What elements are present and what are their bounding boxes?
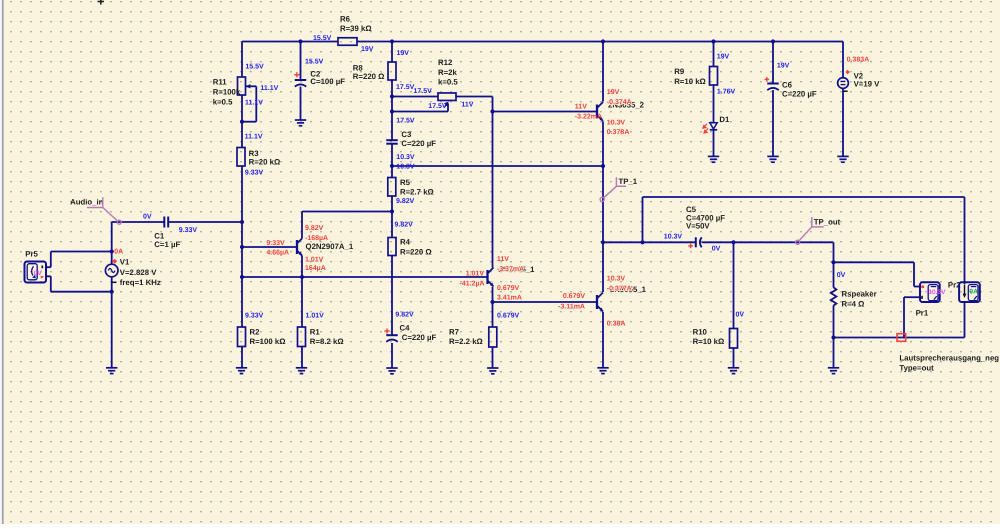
wire R7 bottom (492, 347, 494, 368)
svg-text:11.1V: 11.1V (245, 100, 263, 107)
resistor R1 body (298, 327, 306, 347)
resistor R8 body (388, 62, 396, 80)
wire left column top (241, 42, 243, 78)
junction Q2/rail (601, 39, 605, 43)
wire R12 left lead (392, 96, 438, 98)
capacitor C6 plates (767, 83, 779, 85)
svg-text:R6: R6 (340, 15, 351, 24)
svg-text:19V: 19V (361, 46, 374, 53)
junction Q2907 collector node (300, 275, 304, 279)
svg-text:11.1V: 11.1V (260, 85, 278, 92)
transistor 2N3055_1 output (597, 293, 603, 312)
svg-text:11V: 11V (575, 104, 587, 111)
svg-text:R2: R2 (250, 327, 261, 336)
svg-text:0V: 0V (143, 213, 152, 220)
svg-text:11V: 11V (461, 102, 473, 109)
wire Pr5 bottom wire (51, 291, 112, 293)
ground at x=603 (597, 367, 608, 369)
svg-text:0A: 0A (114, 248, 123, 255)
test point TP_out (812, 217, 824, 227)
svg-text:R7: R7 (449, 327, 459, 336)
svg-text:C=100 µF: C=100 µF (310, 77, 345, 86)
svg-text:R=39 kΩ: R=39 kΩ (340, 24, 372, 33)
wire input top (112, 221, 165, 223)
wire C1 to node (168, 221, 242, 223)
wire speaker node to Pr1 (834, 261, 915, 263)
wire Q2 emitter down (602, 122, 604, 167)
svg-text:9.33V: 9.33V (245, 170, 264, 177)
junction V1 plus node (110, 249, 114, 253)
svg-text:R5: R5 (400, 178, 411, 187)
svg-text:R=100 kΩ: R=100 kΩ (250, 337, 286, 346)
V1 plus marker (112, 259, 117, 264)
wire Q3 collector up (602, 242, 604, 292)
svg-text:9.33V: 9.33V (245, 313, 264, 320)
wire output wire left (603, 241, 695, 243)
svg-text:19V: 19V (397, 50, 410, 57)
svg-text:17.5V: 17.5V (396, 118, 415, 125)
resistor R6 body (338, 38, 357, 46)
wire R7 top (492, 302, 494, 327)
wire feedback down to Pr2 (964, 197, 966, 284)
wire R10 top (733, 242, 735, 328)
polarity + marker (294, 74, 299, 76)
svg-text:11.1V: 11.1V (245, 134, 263, 141)
ground at x=492.8 (487, 367, 498, 369)
svg-text:0.383A: 0.383A (847, 57, 870, 64)
wire C6 top (772, 42, 774, 84)
ground at x=833.5 (828, 367, 839, 369)
svg-text:164µA: 164µA (305, 265, 326, 272)
svg-text:R9: R9 (674, 67, 685, 76)
probe Pr5 (25, 262, 47, 283)
wire 19V rail left of R6 (242, 41, 338, 43)
wire R1 top (301, 277, 303, 327)
ground at x=713.5 (708, 155, 719, 157)
svg-text:R=20 kΩ: R=20 kΩ (249, 158, 281, 167)
junction base Q2 node (490, 109, 494, 113)
svg-text:0.378A: 0.378A (607, 129, 630, 136)
wire input down (111, 222, 113, 264)
svg-text:C=220 µF: C=220 µF (402, 333, 437, 342)
wire Pr5 top wire (51, 251, 112, 253)
wire emitter to base Q3 (493, 301, 598, 303)
wire Q2 collector (602, 42, 604, 102)
resistor Rspeaker zigzag (831, 287, 837, 305)
wire D1 to ground (713, 130, 715, 156)
Audio_in marker (87, 197, 103, 207)
ground at x=773 (767, 155, 778, 157)
svg-text:1.76V: 1.76V (717, 88, 736, 95)
junction C2/rail (298, 39, 302, 43)
svg-text:10.3V: 10.3V (664, 233, 683, 240)
svg-text:D1: D1 (719, 115, 730, 124)
svg-text:-41.2µA: -41.2µA (460, 281, 485, 288)
transistor 2N3055_1 driver (488, 268, 494, 287)
svg-text:0V: 0V (736, 312, 745, 319)
svg-text:R=10 kΩ: R=10 kΩ (693, 337, 725, 346)
svg-text:-3.22mA: -3.22mA (575, 114, 602, 121)
wire 10.3V wire (392, 165, 603, 167)
svg-text:0.38A: 0.38A (607, 321, 626, 328)
junction C6/rail (771, 39, 775, 43)
transistor 2N3055_2 symbol (597, 102, 603, 121)
resistor R5 body (388, 178, 396, 197)
svg-text:C4: C4 (400, 323, 411, 332)
svg-text:9.82V: 9.82V (396, 198, 415, 205)
svg-text:15.5V: 15.5V (245, 63, 264, 70)
junction R9/rail (711, 39, 715, 43)
svg-text:Pr1: Pr1 (916, 308, 929, 317)
wire R8 top (391, 42, 393, 63)
svg-text:9.33V: 9.33V (179, 227, 198, 234)
ground at x=733.5 (728, 367, 739, 369)
wire R11 wiper return (242, 121, 256, 123)
wire left column R2-gnd (241, 347, 243, 368)
capacitor C1 plates (163, 217, 165, 228)
resistor R3 body (237, 148, 245, 167)
svg-text:freq=1 KHz: freq=1 KHz (120, 278, 161, 287)
wire R11 wiper down (255, 86, 257, 121)
wire R12 right lead (456, 96, 493, 98)
junction feedback tap (640, 240, 644, 244)
wire C2 top (300, 42, 302, 81)
svg-text:0.679V: 0.679V (497, 313, 520, 320)
junction R12 left tap (390, 94, 394, 98)
wire bottom return (834, 337, 965, 339)
svg-text:10.3V: 10.3V (396, 154, 415, 161)
wire R12 right down (492, 97, 494, 112)
svg-text:0V: 0V (712, 246, 721, 253)
svg-text:R4: R4 (400, 238, 411, 247)
svg-text:17.5V: 17.5V (428, 103, 447, 110)
source V2 (838, 78, 849, 89)
wire feedback up (642, 197, 644, 242)
R12 wiper arrow (445, 103, 448, 107)
svg-text:R=100k: R=100k (213, 87, 241, 96)
wire Pr5 pin2 down (50, 276, 52, 291)
junction R12 wiper tap (390, 109, 394, 113)
ground at x=301.5 (296, 367, 307, 369)
svg-text:17.5V: 17.5V (396, 84, 415, 91)
svg-text:15.5V: 15.5V (305, 58, 324, 65)
svg-text:R=2.7 kΩ: R=2.7 kΩ (400, 188, 434, 197)
svg-text:TP_1: TP_1 (619, 177, 638, 186)
svg-text:11V: 11V (497, 256, 509, 263)
svg-text:9.82V: 9.82V (395, 312, 414, 319)
V2 plus marker (845, 70, 850, 75)
junction output node (601, 240, 605, 244)
junction R11 wiper node (240, 120, 244, 124)
svg-text:10.3V: 10.3V (607, 120, 626, 127)
svg-text:9.82V: 9.82V (305, 225, 324, 232)
svg-text:17.5V: 17.5V (414, 88, 433, 95)
junction emitter/R7 node (490, 300, 494, 304)
resistor R7 body (489, 327, 497, 347)
resistor R9 body (710, 67, 718, 86)
wire speaker lead bottom (833, 305, 835, 337)
svg-text:C=220 µF: C=220 µF (401, 139, 436, 148)
svg-text:V=50V: V=50V (686, 222, 710, 231)
svg-text:Lautsprecherausgang_neg: Lautsprecherausgang_neg (899, 353, 999, 362)
capacitor C5 plates (695, 237, 697, 247)
wire base wire Q2 (493, 111, 598, 113)
resistor R12 body (438, 93, 456, 101)
svg-text:-3.11mA: -3.11mA (558, 303, 585, 310)
V2 minus marker (844, 90, 848, 92)
svg-text:~10.3V: ~10.3V (925, 289, 947, 296)
wire R12 wiper down (447, 104, 449, 112)
probe Pr2 (959, 282, 980, 302)
svg-text:C=1 µF: C=1 µF (154, 240, 180, 249)
wire R5 to R4 (391, 196, 393, 238)
wire Pr5 pin1 up (50, 252, 52, 268)
junction 10.3V left (390, 164, 394, 168)
svg-text:9.82V: 9.82V (395, 221, 414, 228)
wire speaker top down (833, 242, 835, 262)
junction speaker node (831, 260, 835, 264)
wire R11 wiper stub (246, 85, 256, 87)
svg-text:0A: 0A (969, 288, 978, 295)
wire Pr1 lower down (903, 297, 905, 337)
svg-text:19V: 19V (607, 89, 620, 96)
wire R10 bottom (733, 348, 735, 368)
wire Q2907 emitter over (302, 211, 392, 213)
ground at x=843 (837, 155, 848, 157)
svg-text:-3.37mA: -3.37mA (497, 266, 524, 273)
wire R12 wiper return (392, 111, 448, 113)
wire audio node to base Q2907 (242, 246, 297, 248)
wire left column R3-R2 (241, 166, 243, 327)
junction R5/R4 node (390, 209, 394, 213)
test point TP_1 (616, 177, 626, 186)
resistor R2 body (238, 327, 246, 347)
junction base node (240, 245, 244, 249)
wire R1 bottom (301, 347, 303, 368)
svg-text:1.01V: 1.01V (466, 271, 485, 278)
wire TP column (602, 166, 604, 242)
svg-text:R=220 Ω: R=220 Ω (400, 248, 432, 257)
svg-text:0V: 0V (34, 270, 43, 277)
capacitor C3 plates (386, 139, 398, 141)
junction R10 tap (731, 240, 735, 244)
svg-text:R10: R10 (693, 327, 708, 336)
wire Pr5 pin2 stub (46, 275, 51, 277)
svg-text:R1: R1 (310, 327, 321, 336)
wire speaker gnd stub (833, 338, 835, 368)
resistor R10 body (730, 329, 738, 349)
ground at x=392 (386, 367, 397, 369)
svg-text:19V: 19V (717, 54, 730, 61)
wire R9 top (713, 42, 715, 67)
wire R8 to C3 (391, 80, 393, 140)
wire R9 to D1 (713, 85, 715, 123)
node Lautsprecherausgang_neg marker (897, 334, 906, 342)
svg-text:V1: V1 (120, 258, 130, 267)
wire speaker lead top (833, 262, 835, 287)
svg-text:R=4 Ω: R=4 Ω (842, 299, 865, 308)
svg-text:Q2N2907A_1: Q2N2907A_1 (306, 242, 354, 251)
wire R4 to C4 (391, 256, 393, 336)
V1 minus marker (113, 281, 117, 283)
svg-text:9.33V: 9.33V (266, 240, 285, 247)
svg-text:10.3V: 10.3V (396, 163, 415, 170)
svg-text:R=2.2 kΩ: R=2.2 kΩ (449, 337, 483, 346)
svg-text:1.01V: 1.01V (306, 313, 325, 320)
source V1 (105, 264, 118, 277)
polarity + marker (384, 330, 389, 332)
wire Q2907 emitter up (301, 212, 303, 239)
svg-text:0.679V: 0.679V (563, 293, 586, 300)
ground at x=300.5 (295, 119, 306, 121)
wire Pr1 upper down (913, 262, 915, 286)
wire C6 to ground (772, 90, 774, 156)
svg-text:-168µA: -168µA (305, 235, 328, 242)
svg-text:Rspeaker: Rspeaker (842, 290, 877, 299)
wire V2 to ground (842, 88, 844, 156)
ground at x=241.5 (236, 367, 247, 369)
svg-text:4.66µA: 4.66µA (266, 250, 289, 257)
junction R8/rail (390, 39, 394, 43)
svg-text:-0.377A: -0.377A (607, 286, 632, 293)
wire Q1 collector up (492, 112, 494, 268)
svg-text:R=220 Ω: R=220 Ω (353, 72, 385, 81)
svg-text:15.5V: 15.5V (313, 35, 332, 42)
D1 LED arrows (703, 124, 708, 133)
junction V1 minus node (110, 290, 114, 294)
polarity + marker (765, 78, 770, 80)
svg-text:C=220 µF: C=220 µF (782, 89, 817, 98)
svg-text:R=10 kΩ: R=10 kΩ (674, 77, 706, 86)
svg-text:C6: C6 (782, 81, 793, 90)
svg-text:Pr5: Pr5 (25, 249, 38, 258)
wire V1 to gnd (111, 277, 113, 368)
probe Pr1 (920, 282, 940, 302)
svg-text:19V: 19V (777, 63, 790, 70)
svg-text:0V: 0V (837, 272, 846, 279)
svg-text:R=8.2 kΩ: R=8.2 kΩ (310, 337, 344, 346)
wire Pr1 lower stub (904, 296, 920, 298)
svg-text:R=2k: R=2k (438, 68, 458, 77)
wire Q1 emitter down (492, 287, 494, 302)
wire Pr5 pin1 stub (46, 266, 51, 268)
wire C2 to ground (300, 87, 302, 120)
svg-text:10.3V: 10.3V (607, 276, 626, 283)
wire drive wire (242, 276, 488, 278)
svg-text:C3: C3 (401, 130, 412, 139)
svg-text:TP_out: TP_out (814, 218, 841, 227)
junction bottom node (831, 335, 835, 339)
wire Pr1 upper stub (914, 286, 920, 288)
wire Pr2 to bottom (964, 301, 966, 338)
capacitor C4 plates (386, 334, 398, 336)
svg-text:V=2.828 V: V=2.828 V (120, 268, 157, 277)
wire 19V rail right of R6 (357, 41, 843, 43)
svg-text:3.41mA: 3.41mA (497, 295, 522, 302)
svg-text:-0.374A: -0.374A (607, 99, 632, 106)
ground at x=111.7 (106, 367, 117, 369)
wire C3 to R5 (391, 144, 393, 178)
wire feedback top (643, 196, 965, 198)
svg-text:1.01V: 1.01V (305, 257, 324, 264)
wire Q2907 collector down (301, 256, 303, 278)
svg-text:R11: R11 (213, 77, 228, 86)
wire V2 drop (842, 42, 844, 78)
svg-text:R12: R12 (438, 58, 453, 67)
polarity + marker (688, 245, 693, 247)
junction drive node (240, 275, 244, 279)
transistor Q2N2907A_1 (297, 239, 302, 256)
wire output wire right (702, 241, 834, 243)
resistor R4 body (388, 238, 396, 256)
junction audio-in node (240, 220, 244, 224)
svg-text:0.679V: 0.679V (497, 285, 520, 292)
svg-text:Type=out: Type=out (899, 363, 934, 372)
diode D1 (710, 123, 717, 130)
capacitor C2 plates (295, 79, 307, 81)
svg-text:k=0.5: k=0.5 (213, 97, 233, 106)
junction 10.3V right (601, 164, 605, 168)
wire left column R11-R3 (241, 95, 243, 148)
wire Q3 emitter down (602, 312, 604, 368)
R11 wiper arrow (247, 85, 252, 87)
svg-text:Audio_in: Audio_in (70, 197, 104, 206)
wire C4 to ground (391, 343, 393, 368)
svg-text:V=19 V: V=19 V (854, 80, 881, 89)
origin marker (98, 1, 105, 3)
resistor R11 body (238, 77, 246, 95)
svg-text:k=0.5: k=0.5 (438, 78, 458, 87)
